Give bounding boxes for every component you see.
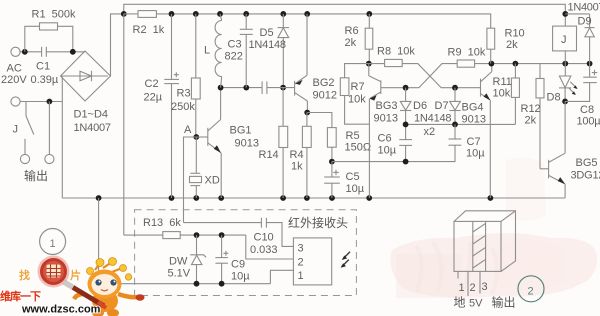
resistor R11 <box>493 64 520 125</box>
svg-text:输出: 输出 <box>24 168 48 183</box>
resistor R4 <box>290 113 312 199</box>
callout circle 2 <box>518 276 544 302</box>
svg-text:5V: 5V <box>469 298 483 310</box>
node D9/C8 bottom <box>587 61 593 67</box>
wire rail to R2 <box>124 13 138 15</box>
node BG2 emitter top <box>304 11 310 17</box>
svg-text:R6: R6 <box>345 25 359 37</box>
node R14 bottom <box>280 195 286 201</box>
svg-text:822: 822 <box>225 51 243 63</box>
svg-text:1N4007: 1N4007 <box>74 122 111 134</box>
node D8 cathode <box>562 99 568 105</box>
resistor R6 <box>345 14 373 64</box>
svg-text:10µ: 10µ <box>378 145 397 157</box>
svg-text:220V: 220V <box>1 74 27 86</box>
svg-text:10µ: 10µ <box>466 148 485 160</box>
svg-text:1N4007: 1N4007 <box>568 2 600 14</box>
node C9 bottom <box>219 281 225 287</box>
svg-text:DW: DW <box>169 256 188 268</box>
node D6 cathode <box>403 122 409 128</box>
resistor R3 <box>171 14 200 137</box>
svg-text:2: 2 <box>528 286 534 298</box>
svg-text:R4: R4 <box>290 149 304 161</box>
wire R8 cross to BG4 base <box>402 64 480 88</box>
svg-text:9012: 9012 <box>313 90 337 102</box>
wire C1 to bridge top <box>46 51 85 53</box>
node BG3 emitter bottom <box>366 195 372 201</box>
svg-text:R8 10k: R8 10k <box>377 46 415 58</box>
module pin caption <box>454 295 516 310</box>
svg-text:R10: R10 <box>505 28 525 40</box>
node R4 bottom <box>304 195 310 201</box>
svg-text:BG5: BG5 <box>576 157 598 169</box>
node BG1 emitter bottom <box>218 195 224 201</box>
label 1N4148 x2 <box>414 113 451 139</box>
node A <box>184 124 199 140</box>
capacitor C3 <box>225 14 253 88</box>
node BG2 collector <box>304 110 310 116</box>
discharge node wire y=161.6 <box>332 161 455 163</box>
svg-text:C3: C3 <box>228 39 242 51</box>
node DW bottom <box>194 281 200 287</box>
svg-text:www.dzsc.com: www.dzsc.com <box>21 304 101 316</box>
svg-text:R13 6k: R13 6k <box>143 217 181 229</box>
svg-text:22µ: 22µ <box>144 92 163 104</box>
output terminal left <box>20 154 29 163</box>
resistor R9 <box>448 47 492 68</box>
node C6 bottom <box>403 159 409 165</box>
node C5 bottom <box>329 195 335 201</box>
diode D7 <box>435 85 461 125</box>
node L/BG1 collector <box>218 85 224 91</box>
svg-text:C9: C9 <box>231 259 245 271</box>
svg-text:片: 片 <box>70 268 81 282</box>
svg-text:2k: 2k <box>345 37 357 49</box>
cathode node wire y=124.4 <box>406 123 516 125</box>
svg-text:C5: C5 <box>346 171 360 183</box>
zener DW <box>168 235 207 284</box>
svg-text:D9: D9 <box>578 16 592 28</box>
node BG3 collector junction <box>366 61 372 67</box>
wire output right branch <box>48 102 50 155</box>
svg-text:C1: C1 <box>36 61 50 73</box>
svg-text:BG2: BG2 <box>313 77 335 89</box>
svg-text:3: 3 <box>482 281 488 293</box>
wire BG3 base cross to R9 <box>381 64 457 88</box>
wire 5V node to receiver pin2 <box>246 235 294 259</box>
svg-text:C10: C10 <box>254 232 274 244</box>
svg-text:3DG12: 3DG12 <box>571 170 600 182</box>
svg-text:D7: D7 <box>435 100 449 112</box>
svg-text:9013: 9013 <box>462 114 486 126</box>
capacitor C6 <box>378 124 413 161</box>
node XD bottom <box>193 195 199 201</box>
transistor BG4 <box>462 64 492 198</box>
module pins <box>458 271 488 296</box>
svg-text:10k: 10k <box>348 94 366 106</box>
svg-text:L: L <box>204 45 210 57</box>
svg-text:10k: 10k <box>493 88 511 100</box>
svg-text:输出: 输出 <box>492 295 516 310</box>
node: C1 left junction <box>22 49 28 55</box>
svg-text:1N4148: 1N4148 <box>249 39 286 51</box>
svg-text:D6: D6 <box>413 100 427 112</box>
node ground tap <box>96 195 102 201</box>
capacitor C5 electrolytic <box>324 162 365 198</box>
node L top <box>217 11 223 17</box>
wire to R13 drop line <box>123 14 125 235</box>
svg-text:R1 500k: R1 500k <box>32 9 77 21</box>
svg-text:R2 1k: R2 1k <box>133 24 165 36</box>
svg-text:2k: 2k <box>525 115 537 127</box>
svg-text:9013: 9013 <box>374 113 398 125</box>
svg-text:x2: x2 <box>424 126 436 138</box>
svg-text:XD: XD <box>205 175 220 187</box>
node D7 cathode <box>452 122 458 128</box>
node BG4 collector / R10 <box>489 61 495 67</box>
svg-text:5.1V: 5.1V <box>168 268 191 280</box>
inductor L <box>204 14 222 88</box>
top supply rail (pre-R2) <box>124 4 566 14</box>
resistor R12 <box>521 64 545 169</box>
svg-text:1: 1 <box>459 282 465 294</box>
wire bridge left corner down to ground rail <box>61 76 63 198</box>
svg-text:1k: 1k <box>291 161 303 173</box>
svg-text:C2: C2 <box>145 78 159 90</box>
capacitor C10 <box>184 218 294 256</box>
svg-text:C6: C6 <box>378 133 392 145</box>
transistor BG2 (PNP) <box>295 14 337 113</box>
resistor R7 <box>340 64 369 125</box>
svg-text:D5: D5 <box>260 27 274 39</box>
svg-text:R9 10k: R9 10k <box>448 47 486 59</box>
svg-text:A: A <box>184 124 192 136</box>
second supply rail after R2 <box>156 14 490 28</box>
svg-text:C8: C8 <box>580 104 594 116</box>
svg-text:R14: R14 <box>259 149 279 161</box>
svg-text:3: 3 <box>298 243 304 255</box>
capacitor C9 electrolytic <box>215 235 250 284</box>
svg-text:R5: R5 <box>346 130 360 142</box>
stamp: find-chip logo <box>38 256 70 288</box>
wire R1 right down <box>58 26 73 52</box>
resistor R5 <box>327 128 371 162</box>
svg-text:BG4: BG4 <box>462 102 484 114</box>
svg-text:0.39µ: 0.39µ <box>31 74 59 86</box>
capacitor C8 electrolytic <box>565 64 600 128</box>
svg-text:2: 2 <box>470 282 476 294</box>
svg-text:R11: R11 <box>493 76 512 88</box>
resistor R14 <box>259 88 288 198</box>
AC input terminal bottom <box>11 97 62 106</box>
svg-text:D8: D8 <box>547 92 561 104</box>
transistor BG1 <box>196 88 259 198</box>
ground rail (bottom) <box>62 197 565 199</box>
node BG4 emitter bottom <box>488 195 494 201</box>
IR receiver dashed enclosure <box>135 210 357 296</box>
crystal XD <box>190 137 220 198</box>
svg-text:C7: C7 <box>467 136 481 148</box>
coupling capacitor <box>262 81 295 94</box>
svg-text:维库一下: 维库一下 <box>0 289 41 303</box>
ground branch to receiver pin1 <box>99 198 294 284</box>
node C9 top <box>219 232 225 238</box>
node R11 top <box>513 61 519 67</box>
svg-text:地: 地 <box>454 296 466 310</box>
LED D8 <box>547 64 578 104</box>
node R5 bottom <box>329 159 335 165</box>
node: output branch junction <box>47 99 53 105</box>
node: bridge top junction <box>70 49 76 55</box>
svg-text:R7: R7 <box>351 81 365 93</box>
flyback diode D9 <box>565 2 600 64</box>
svg-text:9013: 9013 <box>235 138 259 150</box>
node C3 top <box>243 11 249 17</box>
svg-text:J: J <box>561 34 567 46</box>
svg-text:150Ω: 150Ω <box>345 142 372 154</box>
svg-text:100µ: 100µ <box>577 116 600 128</box>
IR receiver head box <box>293 238 331 285</box>
wire BG2 collector to R5 <box>307 113 332 128</box>
node R3 top <box>193 11 199 17</box>
transistor BG3 (mirrored NPN) <box>369 64 398 198</box>
svg-text:红外接收头: 红外接收头 <box>288 215 348 230</box>
resistor R10 <box>487 28 525 64</box>
wire node A to C10 drop <box>184 137 197 223</box>
node relay bottom <box>562 61 568 67</box>
relay contact switch J <box>13 102 34 155</box>
svg-text:2k: 2k <box>506 39 518 51</box>
IR signal arrows <box>341 252 350 268</box>
mascot <box>64 258 145 316</box>
right node wire y=63.6 <box>491 63 589 65</box>
node C2 top <box>169 11 175 17</box>
relay coil J <box>553 11 577 64</box>
node D5 bottom / BG2 base <box>280 85 286 91</box>
diode D6 <box>400 85 427 125</box>
node D5 top <box>280 11 286 17</box>
oscillator node wire y=87.6 <box>221 87 262 89</box>
capacitor C7 <box>449 124 486 161</box>
svg-text:找: 找 <box>19 268 30 282</box>
3D receiver module pictorial <box>454 211 516 272</box>
svg-text:BG1: BG1 <box>230 125 252 137</box>
svg-text:D1~D4: D1~D4 <box>74 109 109 121</box>
site watermark bottom-left <box>0 256 145 316</box>
callout circle 1 <box>40 229 66 255</box>
diode D5 <box>249 14 290 88</box>
node C3 bottom <box>243 85 249 91</box>
resistor R2 <box>133 11 165 36</box>
wire bridge + output up to rail <box>111 14 124 76</box>
AC input terminal top <box>11 47 41 56</box>
svg-text:1: 1 <box>298 270 304 282</box>
node R6 top <box>366 11 372 17</box>
bridge rectifier D1~D4 <box>61 51 111 134</box>
capacitor C2 electrolytic <box>144 14 180 198</box>
svg-text:10µ: 10µ <box>346 183 365 195</box>
capacitor C1 <box>31 47 59 86</box>
resistor R13 <box>124 217 246 239</box>
resistor R1 <box>32 9 77 31</box>
svg-text:1N4148: 1N4148 <box>414 113 451 125</box>
node C2 bottom <box>169 195 175 201</box>
wire riser left to R1 <box>25 26 40 52</box>
node DW top <box>194 232 200 238</box>
svg-text:BG3: BG3 <box>376 100 398 112</box>
output terminal right <box>45 154 54 163</box>
transistor BG5 <box>540 101 600 198</box>
svg-text:10µ: 10µ <box>231 271 250 283</box>
node: rail junction at R2 left <box>121 11 127 17</box>
svg-text:1: 1 <box>50 238 56 250</box>
svg-text:0.033: 0.033 <box>250 244 278 256</box>
svg-text:2: 2 <box>298 257 304 269</box>
pink watermark wash (background) <box>390 158 597 298</box>
AC 220V label <box>1 63 27 87</box>
svg-text:R3: R3 <box>177 88 191 100</box>
svg-text:J: J <box>13 124 19 136</box>
svg-text:R12: R12 <box>521 103 541 115</box>
resistor R8 <box>369 46 416 67</box>
svg-text:250k: 250k <box>171 101 195 113</box>
svg-text:AC: AC <box>7 63 22 75</box>
